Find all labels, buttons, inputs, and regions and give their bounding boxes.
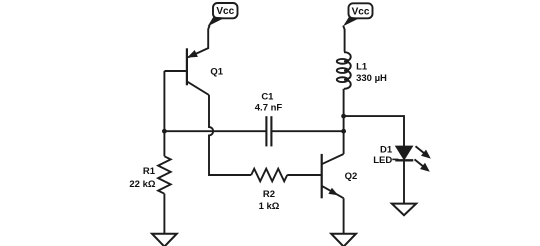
svg-text:Q1: Q1 — [210, 67, 223, 78]
Q2 emitter arrow (NPN) — [328, 188, 338, 196]
resistor R1 — [158, 156, 171, 193]
svg-text:Q2: Q2 — [345, 171, 358, 182]
ground (left) — [152, 234, 177, 246]
transistor Q1 — [164, 48, 209, 95]
ground (middle) — [331, 234, 356, 246]
svg-text:R1: R1 — [143, 166, 156, 177]
wire Q1 collector down with hop over node wire — [209, 95, 251, 175]
resistor R2 — [251, 169, 287, 182]
wire Q2 emitter to ground — [343, 198, 345, 233]
svg-text:LED: LED — [373, 155, 392, 166]
wire R1 to ground — [163, 194, 165, 234]
wire Vcc to Q1 emitter — [188, 25, 210, 57]
svg-text:22 kΩ: 22 kΩ — [129, 179, 155, 190]
capacitor C1 — [266, 116, 271, 146]
LED emission arrow 1 — [416, 146, 431, 158]
wire C1 to node B — [271, 130, 343, 132]
svg-text:C1: C1 — [261, 92, 274, 103]
wire R2 to Q2 base — [287, 174, 322, 176]
ground (right) — [392, 204, 416, 216]
svg-text:D1: D1 — [380, 145, 393, 156]
inductor L1 — [337, 52, 351, 89]
svg-text:Vcc: Vcc — [216, 6, 234, 17]
wire node B to D1 — [344, 116, 404, 146]
LED D1 — [395, 146, 413, 160]
node B junction dot (upper) — [341, 114, 346, 119]
svg-text:R2: R2 — [263, 189, 275, 200]
LED emission arrow 2 — [415, 159, 430, 171]
wire Vcc to L1 — [343, 26, 344, 52]
wire node A to C1 — [164, 130, 265, 132]
node B junction dot (lower) — [341, 129, 346, 134]
node A junction dot — [162, 129, 167, 134]
svg-text:L1: L1 — [356, 62, 368, 73]
wire Q1 base to node A — [163, 71, 165, 156]
power flag Vcc (left) — [208, 3, 238, 26]
wire L1 to Q2 collector — [343, 89, 345, 154]
Q1 emitter arrow (PNP) — [187, 50, 198, 58]
svg-text:4.7 nF: 4.7 nF — [255, 102, 283, 113]
svg-text:1 kΩ: 1 kΩ — [259, 201, 280, 212]
svg-text:330 µH: 330 µH — [356, 73, 387, 84]
transistor Q2 — [322, 154, 344, 198]
power flag Vcc (right) — [343, 3, 373, 26]
svg-text:Vcc: Vcc — [352, 6, 370, 17]
wire D1 to ground — [403, 160, 405, 203]
LED label leader dash — [392, 158, 398, 160]
